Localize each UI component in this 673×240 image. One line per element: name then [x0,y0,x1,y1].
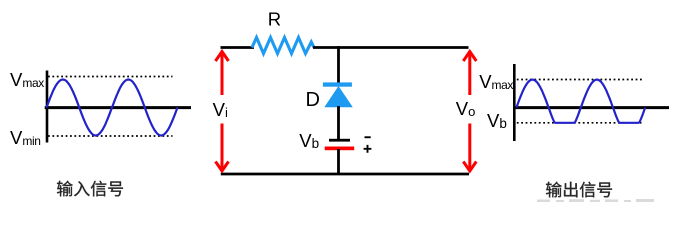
diode D cathode bar [323,82,352,86]
input sine wave [47,80,178,136]
output waveform vertical axis [513,64,516,141]
wire: battery to bottom rail [337,149,340,175]
wire: bottom rail [221,173,469,176]
faint watermark remnants at bottom edge [537,199,654,202]
wire: top rail right segment [313,46,469,49]
wire: diode to battery [337,106,340,140]
wire: branch from top rail to diode [337,46,340,84]
output Vb dotted level line [517,122,642,124]
caption 输入信号 (input signal) [57,181,123,197]
output Vmax dotted level line [517,79,644,81]
resistor R (zigzag) [252,38,314,54]
input Vmax dotted level line [48,76,173,78]
diode D triangle (anode, pointing up) [324,86,353,107]
svg-text:D: D [306,89,320,111]
wire: top rail left segment [221,46,255,49]
battery plus sign [364,145,372,153]
input waveform vertical axis [46,71,49,143]
output clipped sine wave [516,80,645,123]
svg-text:R: R [268,8,281,29]
caption 输出信号 (output signal) [546,182,612,198]
battery minus sign [365,136,371,138]
Vi arrow (red, double-headed) [216,52,229,172]
output waveform horizontal axis [513,106,669,109]
battery Vb negative plate (black, short) [329,139,350,142]
input waveform horizontal axis [45,106,191,109]
Vo arrow (red, double-headed) [463,52,476,172]
battery Vb positive plate (red, long) [325,147,355,151]
input Vmin dotted level line [48,135,173,137]
